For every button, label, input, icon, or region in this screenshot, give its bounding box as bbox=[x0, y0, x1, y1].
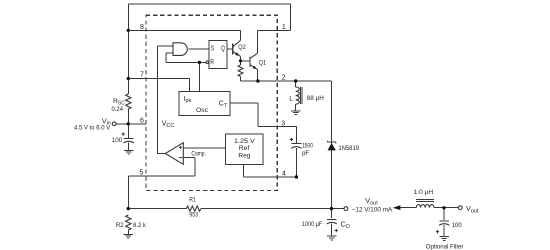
inductor LF core bars bbox=[416, 199, 434, 201]
wire R2 to ground bbox=[127, 230, 129, 234]
svg-text:1.0 µH: 1.0 µH bbox=[414, 189, 434, 196]
svg-text:953: 953 bbox=[189, 212, 198, 219]
svg-text:1: 1 bbox=[282, 24, 286, 31]
node dot Q1 emitter rail bbox=[256, 79, 259, 82]
wire top rail bbox=[128, 3, 290, 5]
IC dashed boundary box U1 bbox=[146, 15, 277, 190]
capacitor CT curved plate bbox=[291, 147, 301, 149]
resistor RSC body bbox=[126, 94, 131, 109]
svg-text:1.25 V: 1.25 V bbox=[234, 138, 256, 145]
gate AND body bbox=[173, 43, 187, 56]
svg-text:Ref: Ref bbox=[239, 145, 250, 152]
node dot CO output junction bbox=[330, 207, 333, 210]
arrow into optional filter bbox=[393, 205, 401, 210]
wire left rail lower bbox=[127, 109, 129, 138]
inductor LF 1.0uH coil bbox=[416, 205, 434, 208]
resistor R2 body bbox=[126, 215, 131, 230]
svg-text:6: 6 bbox=[140, 117, 144, 124]
inductor L core lines bbox=[300, 87, 302, 104]
reference regulator box bbox=[226, 134, 263, 165]
terminal Vout main circle bbox=[344, 207, 348, 211]
oscillator box bbox=[179, 92, 230, 116]
svg-text:R2: R2 bbox=[116, 222, 124, 229]
wire R input bbox=[199, 61, 206, 63]
svg-text:8: 8 bbox=[140, 24, 144, 31]
wire comparator output bbox=[158, 153, 166, 155]
capacitor CO stub bbox=[331, 209, 333, 218]
svg-text:7: 7 bbox=[140, 72, 144, 79]
wire CF to ground bbox=[443, 225, 445, 236]
svg-text:Reg: Reg bbox=[238, 153, 251, 160]
wire AND lower input bbox=[166, 53, 199, 63]
terminal Vout filtered circle bbox=[458, 206, 462, 210]
wire R-net riser to oscillator bbox=[198, 62, 200, 91]
resistor R1 body bbox=[186, 206, 200, 211]
svg-text:Comp.: Comp. bbox=[191, 150, 206, 157]
capacitor CO curved plate bbox=[327, 222, 337, 224]
ground symbol below C1 bbox=[124, 150, 133, 154]
wire comparator noninverting input bbox=[183, 147, 225, 149]
svg-text:Vout: Vout bbox=[466, 204, 479, 214]
wire pin 8 driver collector bbox=[128, 29, 240, 31]
wire pin 2 drop to output rail bbox=[331, 81, 333, 209]
transistor Q2 emitter diagonal bbox=[233, 51, 241, 56]
wire AND upper input riser bbox=[158, 46, 173, 153]
svg-text:88 µH: 88 µH bbox=[307, 95, 324, 102]
wire pin 7 Ipk sense bbox=[128, 79, 189, 92]
svg-text:Q2: Q2 bbox=[238, 44, 246, 51]
wire pin 2 rail bbox=[241, 80, 332, 82]
label comparator plus bbox=[179, 146, 182, 149]
wire arrow to filter coil bbox=[400, 207, 416, 209]
ground symbol below CO bbox=[327, 236, 336, 240]
label C1 plus bbox=[122, 132, 125, 135]
svg-text:Q1: Q1 bbox=[259, 59, 267, 66]
wire top right drop to pin 1 bbox=[289, 4, 291, 31]
node dot R-net bbox=[198, 61, 201, 64]
label CO plus bbox=[335, 229, 338, 232]
wire pin 1 switch collector bbox=[258, 30, 291, 32]
bubble R input bbox=[206, 61, 209, 64]
svg-text:4.5 V to 6.0 V: 4.5 V to 6.0 V bbox=[74, 125, 111, 132]
wire ref reg down bbox=[243, 165, 245, 177]
svg-text:CO: CO bbox=[341, 221, 350, 229]
wire Q output to Q2 base bbox=[227, 48, 232, 50]
svg-text:1N5819: 1N5819 bbox=[338, 145, 359, 152]
transistor Q1 emitter diagonal bbox=[250, 65, 258, 70]
wire C1 to ground bbox=[128, 142, 130, 149]
wire CO to ground bbox=[331, 223, 333, 235]
wire left rail upper bbox=[127, 4, 129, 94]
node dot CT pin4 bbox=[295, 175, 298, 178]
wire output rail left of R1 bbox=[128, 208, 186, 210]
svg-text:Vout: Vout bbox=[365, 196, 378, 206]
capacitor CF top plate bbox=[439, 220, 449, 222]
svg-text:R1: R1 bbox=[189, 196, 196, 203]
svg-text:0.24: 0.24 bbox=[112, 106, 124, 113]
wire inductor L to ground bbox=[295, 104, 297, 110]
latch box S-R bbox=[209, 41, 227, 69]
svg-text:8.2 k: 8.2 k bbox=[133, 222, 147, 229]
wire Q1 emitter drop bbox=[257, 70, 259, 81]
wire Q1 base bbox=[241, 60, 251, 62]
transistor Q2 base bar bbox=[232, 44, 234, 55]
node dot Q2 emitter Q1 base bbox=[239, 59, 242, 62]
node dot inductor tap bbox=[294, 79, 297, 82]
svg-text:100: 100 bbox=[112, 137, 123, 144]
svg-text:L: L bbox=[289, 96, 293, 103]
transistor Q1 emitter arrow bbox=[253, 66, 257, 69]
capacitor CT 1500pF top plate bbox=[292, 143, 302, 145]
ground symbol below L bbox=[291, 111, 300, 115]
ground symbol below CF bbox=[440, 237, 449, 241]
capacitor C1 curved plate bbox=[124, 141, 134, 143]
node dot Vin pin6 bbox=[127, 122, 130, 125]
label comparator minus bbox=[179, 157, 182, 159]
wire CT cap to pin 4 rail bbox=[295, 148, 297, 177]
transistor Q1 collector diagonal bbox=[250, 53, 258, 58]
node dot divider junction bbox=[127, 207, 130, 210]
diode D1 triangle bbox=[328, 143, 336, 151]
wire CT from oscillator bbox=[230, 103, 258, 126]
wire pin 3 to timing cap bbox=[258, 127, 296, 143]
inductor L 88uH coil bbox=[296, 87, 300, 104]
capacitor CF stub bbox=[443, 208, 445, 220]
svg-text:R: R bbox=[210, 57, 214, 66]
node dot pin8 rail bbox=[127, 29, 130, 32]
ground symbol below R2 bbox=[124, 234, 133, 238]
wire filter coil to Vout terminal bbox=[434, 207, 459, 209]
svg-text:−12 V/100 mA: −12 V/100 mA bbox=[352, 206, 393, 213]
svg-text:1500: 1500 bbox=[302, 143, 313, 150]
node dot filter cap junction bbox=[442, 206, 445, 209]
svg-text:S: S bbox=[211, 43, 215, 52]
wire Vin terminal lead bbox=[116, 123, 128, 125]
terminal Vin circle bbox=[112, 122, 116, 126]
wire pin 5 feedback bbox=[128, 175, 195, 177]
wire Q2 emitter drop bbox=[240, 56, 242, 60]
svg-text:Osc: Osc bbox=[196, 107, 208, 114]
wire pin 5 drop to divider bbox=[127, 176, 129, 208]
label CF plus bbox=[436, 230, 439, 233]
comparator triangle bbox=[165, 143, 183, 165]
svg-text:3: 3 bbox=[281, 121, 285, 128]
capacitor C1 100uF top plate bbox=[124, 137, 134, 139]
wire pin 6 VCC bbox=[128, 123, 146, 125]
transistor Q2 collector diagonal bbox=[233, 41, 241, 47]
svg-text:1000 µF: 1000 µF bbox=[302, 221, 322, 228]
svg-text:5: 5 bbox=[139, 170, 143, 177]
svg-text:Q: Q bbox=[221, 43, 225, 52]
wire Q1 collector riser bbox=[257, 31, 259, 54]
svg-text:2: 2 bbox=[282, 75, 286, 82]
wire comparator inverting input bbox=[183, 158, 195, 177]
wire inductor L stub bbox=[295, 81, 297, 87]
wire Q2 collector riser bbox=[239, 30, 241, 40]
diode D1 schottky hooks bbox=[328, 141, 336, 144]
svg-text:Ipk: Ipk bbox=[184, 96, 192, 104]
svg-text:CT: CT bbox=[219, 101, 228, 109]
wire output rail right of R1 bbox=[201, 208, 344, 210]
node dot pin7 rail bbox=[127, 77, 130, 80]
svg-text:4: 4 bbox=[282, 171, 286, 178]
svg-text:Optional Filter: Optional Filter bbox=[426, 244, 464, 250]
svg-text:VCC: VCC bbox=[162, 121, 175, 129]
label CT plus bbox=[290, 138, 293, 141]
svg-text:100: 100 bbox=[452, 222, 462, 229]
wire pin 4 ground pin bbox=[244, 176, 297, 178]
wire AND output to S input bbox=[188, 48, 209, 50]
resistor base-emitter body bbox=[238, 65, 243, 77]
diode D1 cathode bar bbox=[328, 141, 336, 143]
svg-text:pF: pF bbox=[302, 150, 309, 157]
capacitor CF curved plate bbox=[439, 224, 450, 226]
transistor Q2 emitter arrow bbox=[235, 52, 239, 56]
capacitor CO top plate bbox=[327, 218, 336, 220]
wire base resistor stubs bbox=[240, 61, 242, 81]
transistor Q1 base bar bbox=[249, 56, 251, 67]
